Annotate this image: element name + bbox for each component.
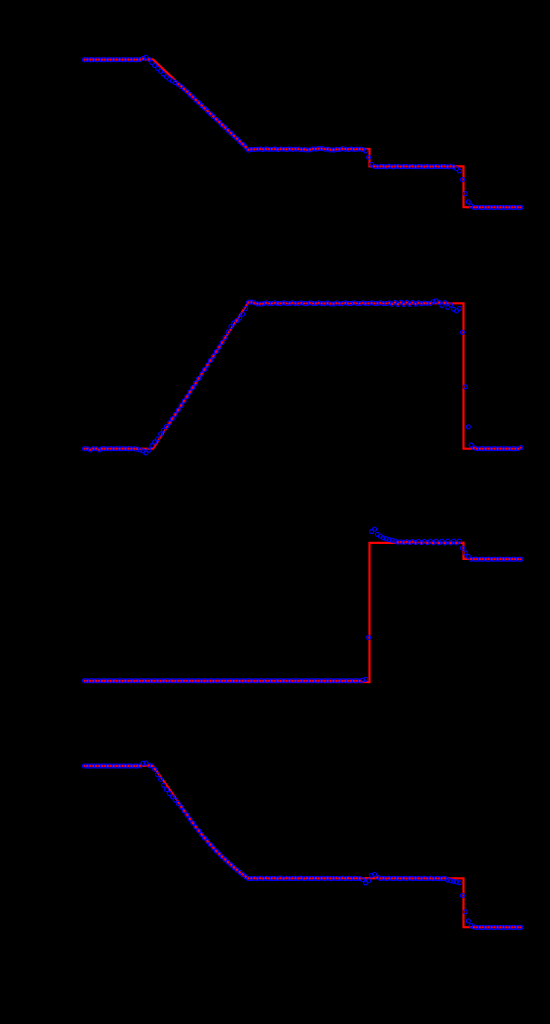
density rho exact xyxy=(84,59,521,207)
velocity u exact xyxy=(84,303,521,448)
pressure numerical markers xyxy=(82,761,523,929)
pressure p exact sample dots xyxy=(83,764,522,928)
entropy p/rho^gamma exact xyxy=(84,543,521,682)
density rho numerical markers xyxy=(82,55,523,209)
entropy numerical markers xyxy=(82,527,523,683)
density rho exact sample dots xyxy=(83,57,522,208)
pressure p exact xyxy=(84,766,521,927)
velocity u exact sample dots xyxy=(83,301,522,451)
entropy p/rho^gamma exact sample dots xyxy=(83,541,522,682)
velocity u numerical markers xyxy=(82,299,523,455)
